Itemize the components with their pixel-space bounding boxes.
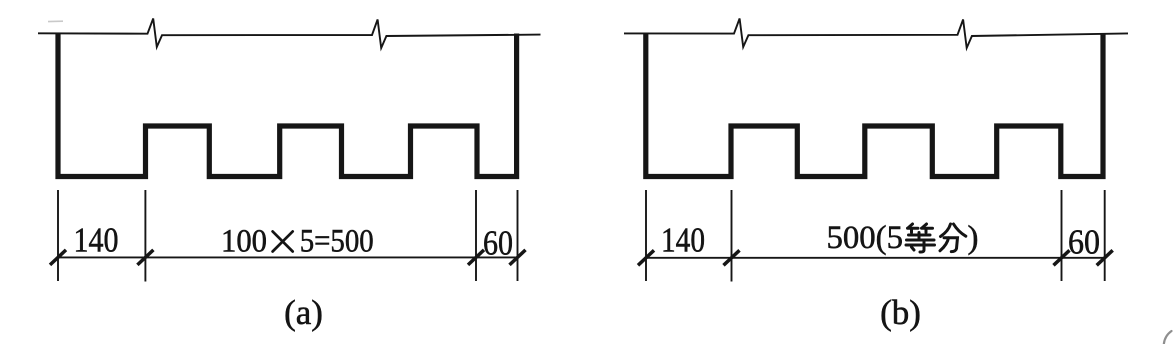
- figure (b) tick 3: [1054, 250, 1070, 265]
- figure (a) dimension line: [58, 256, 518, 258]
- figure (a) tick 3: [468, 250, 484, 265]
- svg-text:500(5: 500(5: [827, 220, 904, 256]
- svg-text:140: 140: [661, 221, 705, 260]
- figure (a) crenellated profile outline: [58, 34, 517, 177]
- figure (a) extension line 4: [517, 190, 519, 281]
- figure (a) tick 4: [510, 250, 526, 265]
- svg-text:60: 60: [1068, 223, 1100, 262]
- svg-text:100: 100: [221, 224, 267, 260]
- figure (b) extension line 3: [1061, 190, 1063, 281]
- figure (b) tick 4: [1097, 250, 1113, 265]
- figure (b) CJK character fen (divide): [940, 224, 966, 252]
- figure (b) broken top line with two break marks: [624, 19, 1128, 49]
- figure (b) crenellated profile outline: [646, 34, 1103, 177]
- figure (a) tick 1: [50, 250, 66, 265]
- figure (a) multiplication sign: [273, 231, 293, 251]
- svg-text:(b): (b): [880, 293, 921, 332]
- figure (a) broken top line with two break marks: [38, 19, 541, 49]
- figure (b) tick 1: [638, 250, 654, 265]
- figure (a) extension line 3: [475, 190, 477, 281]
- figure (b) extension line 4: [1104, 190, 1106, 281]
- figure (a) tick 2: [137, 250, 153, 265]
- svg-text:): ): [968, 220, 979, 256]
- svg-text:140: 140: [74, 221, 119, 260]
- figure (b) extension line 1: [645, 190, 647, 281]
- svg-text:5=500: 5=500: [300, 224, 374, 260]
- figure (b) dimension line: [646, 257, 1105, 259]
- figure (b) tick 2: [724, 250, 740, 265]
- figure (b) CJK character deng (equal parts): [906, 224, 935, 252]
- svg-text:60: 60: [483, 224, 513, 263]
- scan artifact dash top-left: [48, 20, 63, 22]
- figure (b) extension line 2: [731, 190, 733, 282]
- figure (a) extension line 2: [144, 190, 146, 282]
- scan artifact partial parenthesis bottom-right: [1164, 331, 1172, 344]
- figure (a) extension line 1: [57, 190, 59, 281]
- svg-text:(a): (a): [284, 293, 323, 332]
